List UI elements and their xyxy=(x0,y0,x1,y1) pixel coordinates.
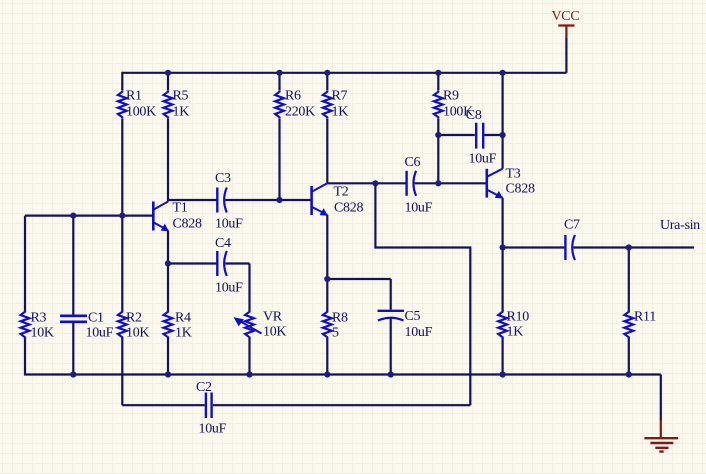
wire R10 column xyxy=(502,249,504,376)
svg-text:R6: R6 xyxy=(285,89,301,104)
svg-text:C828: C828 xyxy=(173,217,202,232)
svg-text:10uF: 10uF xyxy=(86,325,114,340)
svg-text:C1: C1 xyxy=(88,310,104,325)
junction T1 emitter / C4 xyxy=(165,260,171,266)
wire ground drop xyxy=(660,375,662,421)
junction output / T3 emitter xyxy=(500,244,506,250)
resistor R7 xyxy=(323,89,348,120)
wire C1 column xyxy=(72,216,74,376)
capacitor C7 xyxy=(564,218,580,261)
resistor R4 xyxy=(164,310,192,340)
svg-text:R3: R3 xyxy=(31,310,47,325)
wire C2 line xyxy=(122,404,470,406)
svg-text:C5: C5 xyxy=(405,309,421,324)
wire C8 line xyxy=(438,134,502,136)
svg-text:C8: C8 xyxy=(466,108,482,123)
transistor T1 xyxy=(153,201,202,232)
wire R2 column xyxy=(121,216,123,406)
wire T2 emitter column xyxy=(326,215,328,376)
wire R9 column xyxy=(437,72,439,184)
capacitor C4 xyxy=(215,236,243,296)
resistor R10 xyxy=(498,309,529,339)
wire T3 emitter column xyxy=(502,198,504,249)
junction bottom rail / R4 xyxy=(165,371,171,377)
capacitor C2 xyxy=(196,380,227,437)
svg-text:100K: 100K xyxy=(126,104,156,119)
junction T1 base / C1 xyxy=(70,213,76,219)
svg-text:T1: T1 xyxy=(173,201,188,216)
resistor R9 xyxy=(434,89,473,120)
svg-text:C828: C828 xyxy=(506,182,535,197)
junction bottom rail / R11 xyxy=(626,371,632,377)
svg-text:1K: 1K xyxy=(175,325,192,340)
svg-text:C4: C4 xyxy=(215,236,231,251)
capacitor C6 xyxy=(405,155,433,216)
junction bottom rail / R8 xyxy=(324,371,330,377)
junction C3 line / R6 xyxy=(276,197,282,203)
junction base line T3 / feedback xyxy=(372,180,378,186)
junction rail-R9 xyxy=(435,70,441,76)
svg-text:R9: R9 xyxy=(443,89,459,104)
wire VR bottom xyxy=(248,338,250,376)
svg-text:C6: C6 xyxy=(405,155,421,170)
wire left column R3 xyxy=(24,216,26,376)
potentiometer VR xyxy=(234,309,287,339)
resistor R1 xyxy=(118,89,156,120)
wire output line xyxy=(503,246,694,248)
svg-text:10uF: 10uF xyxy=(405,325,433,340)
capacitor C3 xyxy=(215,171,243,232)
svg-text:C2: C2 xyxy=(196,380,212,395)
wire T1 base line xyxy=(25,215,153,217)
svg-text:Ura-sin: Ura-sin xyxy=(660,218,700,233)
junction output / R11 xyxy=(626,244,632,250)
resistor R3 xyxy=(21,310,54,340)
svg-text:1K: 1K xyxy=(507,324,524,339)
wire C4 line xyxy=(168,264,250,312)
svg-text:10K: 10K xyxy=(126,325,149,340)
power VCC xyxy=(552,9,580,73)
svg-text:10uF: 10uF xyxy=(199,422,227,437)
svg-text:10K: 10K xyxy=(31,325,54,340)
junction rail-R5 xyxy=(165,70,171,76)
capacitor C1 xyxy=(60,310,114,340)
wire T3 collector column xyxy=(502,72,504,169)
resistor R8 xyxy=(323,310,348,340)
junction bottom rail / R10 xyxy=(500,371,506,377)
junction bottom rail / VR xyxy=(246,371,252,377)
wire top rail xyxy=(122,72,566,74)
transistor T3 xyxy=(487,167,535,199)
svg-text:10uF: 10uF xyxy=(215,281,243,296)
resistor R2 xyxy=(118,310,150,340)
svg-text:10uF: 10uF xyxy=(405,201,433,216)
svg-text:R1: R1 xyxy=(126,89,142,104)
wire C6 / T3 base line xyxy=(327,182,487,184)
junction C8 left / R9 xyxy=(435,132,441,138)
ground xyxy=(644,420,678,452)
junction C8 right / T3 collector xyxy=(500,132,506,138)
svg-text:R8: R8 xyxy=(332,310,348,325)
junction rail-R6 xyxy=(276,70,282,76)
svg-text:C828: C828 xyxy=(334,201,363,216)
wire R7 / T2 collector column xyxy=(326,72,328,184)
svg-text:10uF: 10uF xyxy=(469,152,497,167)
wire bottom rail xyxy=(25,373,661,375)
svg-text:T2: T2 xyxy=(334,184,349,199)
svg-text:C7: C7 xyxy=(564,218,580,233)
svg-text:R11: R11 xyxy=(634,309,656,324)
svg-text:1K: 1K xyxy=(173,104,190,119)
svg-text:5: 5 xyxy=(332,325,339,340)
wire R11 column xyxy=(628,248,630,376)
svg-text:C3: C3 xyxy=(215,171,231,186)
capacitor C8 xyxy=(466,108,497,167)
wire T1 emitter column xyxy=(167,230,169,375)
junction rail-T3 collector xyxy=(500,70,506,76)
svg-text:R5: R5 xyxy=(173,89,189,104)
transistor T2 xyxy=(312,183,364,215)
resistor R6 xyxy=(275,89,315,120)
wire C3 line xyxy=(168,199,312,201)
wire R5 / T1 collector column xyxy=(167,72,169,202)
resistor R11 xyxy=(624,309,656,338)
svg-text:R4: R4 xyxy=(175,310,191,325)
junction T1 base / R1-R2 xyxy=(119,213,125,219)
wire feedback path xyxy=(375,183,470,405)
wire R1 column xyxy=(121,72,123,217)
junction bottom rail / C5 xyxy=(388,371,394,377)
wire R6 column xyxy=(278,72,280,200)
svg-text:10K: 10K xyxy=(263,324,286,339)
label Ura-sin xyxy=(660,218,700,233)
capacitor C5 xyxy=(378,309,433,340)
svg-text:VR: VR xyxy=(263,309,283,324)
svg-text:R7: R7 xyxy=(332,89,348,104)
junction bottom rail / C1 xyxy=(70,371,76,377)
junction rail-R7 xyxy=(324,70,330,76)
svg-text:R2: R2 xyxy=(126,310,142,325)
svg-text:1K: 1K xyxy=(332,104,349,119)
junction T2 emitter / C5 branch xyxy=(324,276,330,282)
svg-text:R10: R10 xyxy=(507,309,530,324)
wire C5 branch xyxy=(327,279,390,376)
svg-text:T3: T3 xyxy=(506,167,521,182)
junction C6 right / R9 column xyxy=(435,180,441,186)
svg-text:VCC: VCC xyxy=(552,9,580,24)
svg-text:10uF: 10uF xyxy=(215,217,243,232)
resistor R5 xyxy=(164,89,190,120)
svg-text:220K: 220K xyxy=(285,104,315,119)
